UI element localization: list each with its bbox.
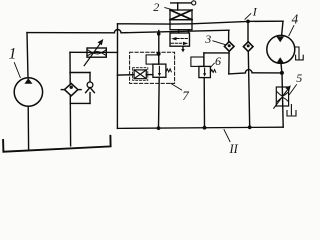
relief valve 7 assembly dashed box <box>130 52 175 83</box>
motor 4 <box>267 35 295 63</box>
wire line II bus <box>117 127 283 128</box>
motor shaft drain and mini tank <box>295 47 304 60</box>
check valve left diamond <box>61 83 81 95</box>
wire motor bottom <box>280 63 283 73</box>
wire motor top riser <box>282 21 283 35</box>
check valve 3 <box>224 30 234 74</box>
orifice to relief valve pilot <box>118 68 153 81</box>
valve 6 makeup valve <box>191 53 229 130</box>
wire return riser <box>116 24 118 129</box>
label 2 <box>153 0 159 14</box>
svg-text:II: II <box>229 142 239 156</box>
svg-text:6: 6 <box>215 54 221 68</box>
label 5 <box>296 71 302 85</box>
label 3 <box>204 32 211 46</box>
wire pump discharge riser <box>27 33 28 78</box>
wire pump discharge bus (hops over return riser) <box>27 30 229 33</box>
wire check pair left riser <box>69 52 72 146</box>
label II (line II) <box>229 142 239 156</box>
label 1 <box>9 46 17 63</box>
svg-text:5: 5 <box>296 71 302 85</box>
throttle left adjustable <box>84 39 106 66</box>
wire pump suction to tank <box>27 106 29 149</box>
wire suction branch corner <box>70 51 118 53</box>
svg-text:7: 7 <box>182 88 189 103</box>
wire valve 2 feed <box>118 23 171 25</box>
label I (line I) <box>252 4 258 18</box>
label 6 <box>215 54 221 68</box>
check valve makeup diamond <box>243 21 253 129</box>
label 4 <box>292 12 299 27</box>
check valve right ball branch <box>70 73 94 104</box>
svg-text:3: 3 <box>204 32 211 46</box>
svg-text:4: 4 <box>292 12 299 27</box>
wire line M (hops over makeup riser) <box>229 70 280 74</box>
tank <box>3 136 111 152</box>
junction line M right <box>280 71 284 75</box>
wire line I to motor <box>192 21 283 24</box>
svg-text:I: I <box>252 4 258 18</box>
relief valve 7 <box>146 31 171 131</box>
wire line I through valve 2 <box>170 23 192 25</box>
reservoir under valve 2 <box>170 33 190 52</box>
label 7 <box>182 88 189 103</box>
junction line I <box>246 20 250 24</box>
throttle 5 <box>274 73 291 127</box>
svg-text:2: 2 <box>153 0 159 14</box>
pump 1 <box>14 78 42 106</box>
valve 2 shut-off <box>170 1 196 33</box>
svg-text:1: 1 <box>9 46 17 63</box>
drain mini tank under throttle 5 <box>287 105 296 117</box>
